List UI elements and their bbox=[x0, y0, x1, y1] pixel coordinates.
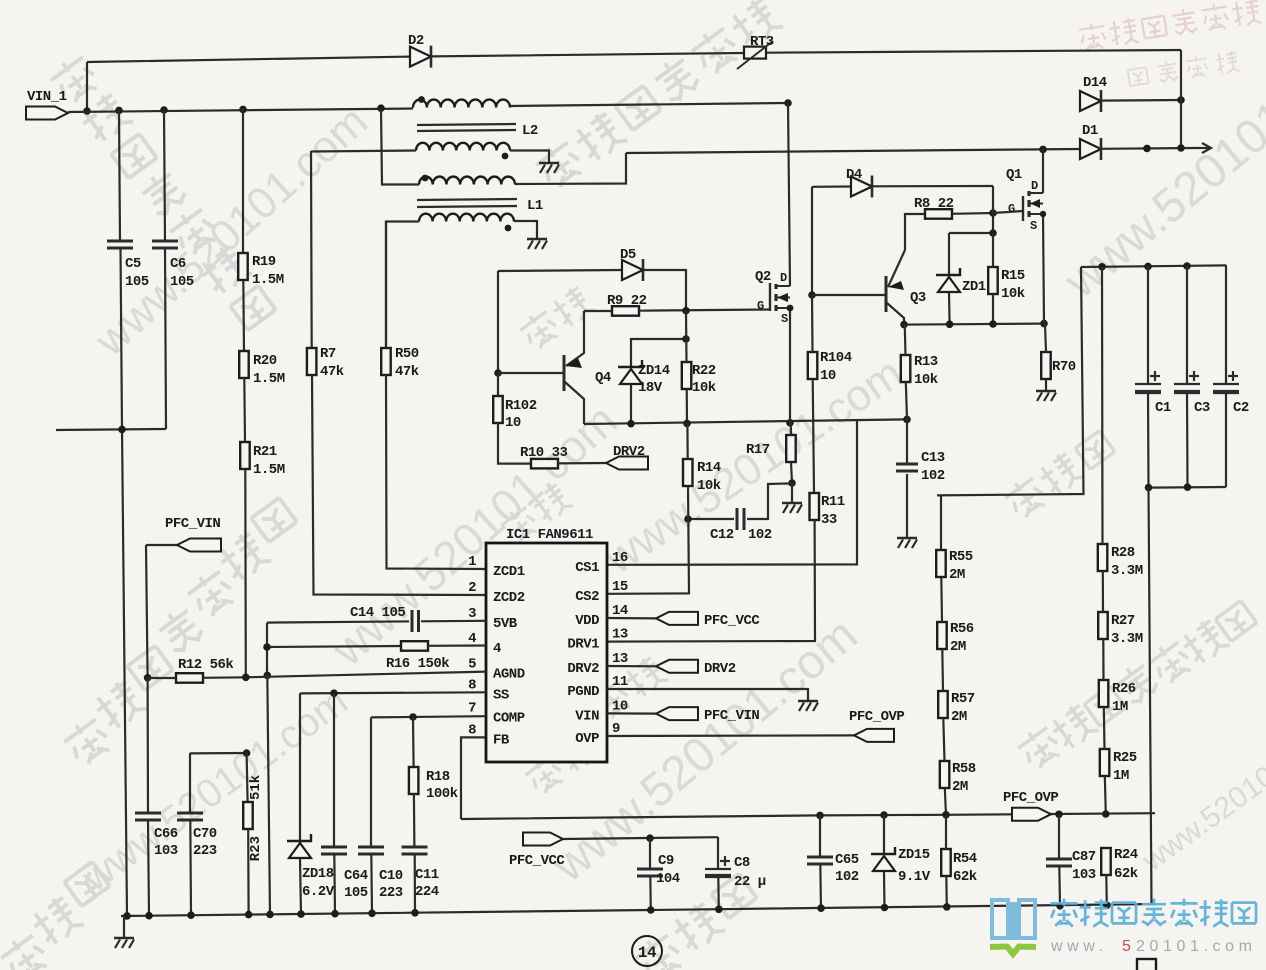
zener ZD15 bbox=[873, 856, 895, 871]
svg-text:R15: R15 bbox=[1001, 268, 1025, 284]
wire C6 column lower bbox=[165, 248, 166, 429]
ground C13 bbox=[897, 537, 917, 540]
junction gnd bus C66 bbox=[145, 912, 153, 920]
svg-text:R50: R50 bbox=[395, 346, 419, 362]
wire D4 line bbox=[812, 185, 851, 188]
wire AGND line bbox=[246, 672, 486, 678]
svg-text:20101.com: 20101.com bbox=[1136, 938, 1257, 955]
svg-text:C2: C2 bbox=[1233, 400, 1249, 416]
junction R12-R21 bbox=[242, 674, 250, 682]
wire R58 bottom bbox=[945, 788, 946, 815]
core L1 bbox=[417, 199, 517, 200]
junction gnd bus C11 bbox=[411, 909, 419, 917]
resistor R27 bbox=[1098, 612, 1108, 639]
resistor R104 bbox=[808, 352, 818, 379]
svg-text:22 μ: 22 μ bbox=[734, 874, 766, 890]
wire R70 stem bbox=[1045, 379, 1047, 390]
svg-text:ZCD2: ZCD2 bbox=[493, 590, 525, 606]
svg-text:102: 102 bbox=[921, 468, 945, 484]
wire SS line bbox=[300, 692, 486, 693]
capacitor C64 bbox=[321, 846, 347, 849]
wire COMP line bbox=[371, 716, 486, 717]
wire R11-DRV1 bbox=[607, 520, 815, 642]
svg-text:R19: R19 bbox=[252, 254, 276, 270]
diode D2 bbox=[410, 47, 431, 67]
wire R19-R20 bbox=[242, 280, 245, 351]
svg-text:1.5M: 1.5M bbox=[253, 462, 285, 478]
svg-text:105: 105 bbox=[170, 274, 194, 290]
svg-text:10: 10 bbox=[820, 368, 836, 384]
junction C1 bus feed bbox=[1143, 145, 1151, 153]
wire pin4 line left bbox=[267, 646, 401, 647]
diode D1 bbox=[1080, 139, 1101, 159]
capacitor C3 (electrolytic) bbox=[1174, 383, 1200, 385]
resistor R10 bbox=[531, 459, 558, 469]
ground L1 winding2 bbox=[527, 238, 547, 241]
svg-text:COMP: COMP bbox=[493, 711, 525, 727]
svg-text:L1: L1 bbox=[527, 198, 543, 214]
junction C9 top bbox=[646, 834, 654, 842]
wire right riser bbox=[1180, 50, 1182, 148]
resistor R22 bbox=[682, 362, 692, 389]
wire R19 column bbox=[242, 109, 244, 253]
junction Q2 source stub bbox=[787, 305, 794, 312]
resistor R56 bbox=[937, 622, 947, 649]
svg-text:10k: 10k bbox=[697, 478, 721, 494]
svg-text:D5: D5 bbox=[620, 247, 636, 263]
svg-text:R23: R23 bbox=[248, 836, 264, 861]
wire D4 riser bbox=[992, 186, 994, 213]
resistor R19 bbox=[238, 253, 248, 280]
svg-text:223: 223 bbox=[379, 885, 403, 901]
wire ZD18 column bbox=[299, 693, 301, 843]
wire C3 top bbox=[1186, 266, 1188, 384]
wire AGND ground column bbox=[267, 675, 270, 915]
svg-text:2M: 2M bbox=[952, 779, 968, 795]
wire CS1 riser bbox=[607, 420, 857, 565]
svg-text:C66: C66 bbox=[154, 826, 178, 842]
svg-text:2M: 2M bbox=[951, 709, 967, 725]
logo book icon bbox=[992, 900, 1035, 940]
wire ZD15 top bbox=[883, 815, 885, 854]
zener ZD18 bbox=[289, 843, 311, 858]
wire ZD14 bottom bbox=[630, 385, 632, 423]
wire C70 link bbox=[190, 752, 247, 755]
net flag DRV2 (gate drive) bbox=[606, 457, 648, 470]
capacitor C8 (electrolytic) bbox=[705, 868, 731, 870]
wire R54 top bbox=[945, 815, 947, 849]
junction gnd bus ZD18 bbox=[297, 910, 305, 918]
junction gnd bus C8 bbox=[715, 906, 723, 914]
wire R102-DRV2 bbox=[498, 423, 531, 464]
wire ZD14 top link bbox=[631, 339, 686, 367]
svg-text:62k: 62k bbox=[953, 869, 977, 885]
svg-text:9: 9 bbox=[612, 721, 620, 737]
wire L1 winding1 right bbox=[515, 153, 626, 184]
diode D4 bbox=[851, 177, 872, 197]
svg-text:105: 105 bbox=[344, 885, 368, 901]
svg-text:C5: C5 bbox=[125, 256, 141, 272]
junction pin4 tie bbox=[263, 643, 271, 651]
svg-text:C13: C13 bbox=[921, 450, 945, 466]
wire R24 bottom bbox=[1105, 875, 1108, 906]
svg-text:3.3M: 3.3M bbox=[1111, 563, 1143, 579]
wire R14-CS2 bbox=[607, 486, 689, 594]
svg-text:Q1: Q1 bbox=[1006, 167, 1022, 183]
wire R17 bottom bbox=[791, 462, 792, 483]
wire R20-R21 bbox=[243, 378, 246, 442]
ground R17/C12 bbox=[782, 502, 802, 505]
svg-text:8: 8 bbox=[468, 678, 476, 694]
wire C12 left bbox=[688, 518, 734, 520]
wire Q3 base line bbox=[812, 294, 886, 296]
svg-text:103: 103 bbox=[1072, 867, 1096, 883]
svg-text:1.5M: 1.5M bbox=[252, 272, 284, 288]
sheet number 14 bbox=[632, 936, 662, 966]
wire L1 winding2 left bbox=[386, 222, 419, 349]
svg-text:ZD14: ZD14 bbox=[638, 363, 670, 379]
wire C2 top bbox=[1225, 265, 1227, 384]
logo corner box bbox=[1137, 959, 1156, 970]
wire FB-OVP line bbox=[461, 813, 1155, 819]
ground R70 bbox=[1036, 390, 1056, 393]
svg-text:D: D bbox=[780, 271, 787, 285]
svg-text:R27: R27 bbox=[1111, 613, 1135, 629]
wire C10 bottom bbox=[370, 854, 373, 914]
svg-text:R54: R54 bbox=[953, 851, 977, 867]
junction Q1 drain feed bbox=[1039, 146, 1047, 154]
wire C5 column lower bbox=[121, 248, 128, 916]
junction Q3 base bbox=[808, 291, 816, 299]
wire Q1 gate bbox=[993, 211, 1023, 213]
wire L2 coil1 out bbox=[510, 103, 788, 106]
junction Q1 source stub bbox=[1040, 211, 1046, 217]
svg-text:R102: R102 bbox=[505, 398, 537, 414]
thermistor RT3 bbox=[744, 47, 766, 59]
net flag PFC_OVP (feedback) bbox=[1012, 808, 1051, 821]
svg-text:13: 13 bbox=[612, 651, 628, 667]
junction C1 bottom bbox=[1145, 484, 1153, 492]
wire main right column bbox=[1149, 488, 1152, 904]
junction Q3 emitter bbox=[900, 321, 908, 329]
svg-text:6.2V: 6.2V bbox=[302, 884, 335, 900]
resistor R20 bbox=[239, 351, 249, 378]
wire source bus bbox=[584, 419, 907, 424]
capacitor C6 bbox=[152, 240, 178, 243]
IC U1 FAN9611 body bbox=[486, 543, 607, 762]
capacitor C5 bbox=[107, 240, 133, 243]
transistor Q1 (MOSFET) bbox=[1022, 196, 1024, 221]
wire D4 line left riser bbox=[811, 187, 813, 295]
svg-text:10: 10 bbox=[505, 415, 521, 431]
svg-text:C12: C12 bbox=[710, 527, 734, 543]
svg-text:CS2: CS2 bbox=[575, 589, 599, 605]
junction C1 top bbox=[1144, 263, 1152, 271]
svg-text:FB: FB bbox=[493, 732, 510, 748]
wire R17 top bbox=[790, 421, 792, 435]
junction D14 out bbox=[1177, 96, 1185, 104]
resistor R26 bbox=[1099, 680, 1109, 707]
junction Q4 base bbox=[494, 369, 502, 377]
wire cap bus bbox=[1081, 265, 1226, 267]
svg-text:5: 5 bbox=[468, 657, 476, 673]
svg-text:R20: R20 bbox=[253, 353, 277, 369]
resistor R16 bbox=[401, 641, 428, 651]
svg-text:C8: C8 bbox=[734, 855, 750, 871]
wire C13 top bbox=[906, 419, 908, 464]
svg-text:10k: 10k bbox=[914, 372, 938, 388]
wire D1 line bbox=[626, 149, 1080, 153]
wire ZD1 bottom bbox=[948, 293, 951, 324]
wire R56-R57 bbox=[941, 649, 944, 691]
svg-text:103: 103 bbox=[154, 843, 178, 859]
wire left riser bbox=[86, 62, 88, 111]
svg-text:D2: D2 bbox=[408, 33, 424, 49]
wire R104 top bbox=[811, 295, 814, 352]
wire ZD15 bottom bbox=[883, 872, 886, 909]
net flag PFC_VCC (pin14) bbox=[607, 617, 656, 620]
wire R14 top bbox=[686, 423, 688, 459]
junction C5-C6 tie bbox=[118, 426, 126, 434]
svg-text:D1: D1 bbox=[1082, 123, 1098, 139]
svg-text:SS: SS bbox=[493, 688, 509, 704]
wire R18-C11 bbox=[413, 794, 416, 847]
wire R17 gnd stem bbox=[791, 483, 793, 502]
net flag VIN_1 bbox=[26, 107, 68, 120]
wire L2 winding2 right bbox=[510, 151, 549, 163]
svg-text:C87: C87 bbox=[1072, 849, 1096, 865]
wire C8 top bbox=[717, 837, 719, 869]
svg-text:4: 4 bbox=[493, 641, 501, 657]
wire C8 bottom bbox=[717, 876, 720, 910]
svg-text:C65: C65 bbox=[835, 852, 859, 868]
svg-text:14: 14 bbox=[612, 603, 628, 619]
svg-text:2M: 2M bbox=[950, 639, 966, 655]
net flag PFC_VCC (supply) bbox=[523, 833, 563, 846]
svg-text:R28: R28 bbox=[1111, 545, 1135, 561]
wire R12 right lead bbox=[203, 676, 246, 679]
junction R58-R54 bbox=[942, 811, 950, 819]
ground main bbox=[114, 937, 134, 940]
svg-text:R58: R58 bbox=[952, 761, 976, 777]
wire C1 bottom bbox=[1147, 392, 1150, 487]
resistor R15 bbox=[988, 267, 998, 294]
resistor R54 bbox=[941, 849, 951, 876]
wire R10 out bbox=[558, 462, 606, 465]
svg-text:C6: C6 bbox=[170, 256, 186, 272]
junction gnd bus C5 bbox=[123, 912, 131, 920]
diode D5 bbox=[622, 260, 643, 280]
wire 5VB drop bbox=[266, 623, 268, 676]
resistor R24 bbox=[1101, 848, 1111, 875]
net flag PFC_VIN (pin10) bbox=[607, 712, 656, 714]
wire cap lower bus bbox=[1149, 486, 1227, 489]
capacitor C13 bbox=[896, 463, 918, 466]
wire R7 column lower (ZCD2) bbox=[312, 375, 486, 595]
svg-text:9.1V: 9.1V bbox=[898, 869, 931, 885]
svg-text:S: S bbox=[1030, 219, 1037, 233]
wire top bus right bbox=[766, 50, 1181, 53]
wire C5 column upper bbox=[119, 110, 120, 241]
wire R9 line left bbox=[584, 310, 612, 312]
wire D14 out bbox=[1101, 99, 1181, 102]
junction gnd bus C70 bbox=[187, 911, 195, 919]
wire C87 top bbox=[1058, 814, 1060, 859]
svg-text:1M: 1M bbox=[1113, 768, 1129, 784]
svg-text:R24: R24 bbox=[1114, 847, 1138, 863]
junction gnd bus AGND bbox=[266, 911, 274, 919]
svg-text:R104: R104 bbox=[820, 350, 852, 366]
junction ZD14 bottom bbox=[627, 420, 635, 428]
node L1 winding1 phase dot bbox=[422, 175, 429, 182]
svg-text:Q2: Q2 bbox=[755, 269, 771, 285]
wire R70 top bbox=[1045, 324, 1046, 352]
wire R8 left bbox=[905, 214, 925, 250]
svg-text:R25: R25 bbox=[1113, 750, 1137, 766]
svg-text:C70: C70 bbox=[193, 826, 217, 842]
junction gnd bus C64 bbox=[331, 910, 339, 918]
capacitor C10 bbox=[358, 846, 384, 849]
svg-text:C11: C11 bbox=[415, 867, 439, 883]
junction R12 left bbox=[144, 674, 152, 682]
wire R22 top bbox=[685, 311, 688, 362]
wire C66 bottom bbox=[148, 820, 149, 916]
wire C2 bottom bbox=[1225, 392, 1227, 487]
wire R104-R11 bbox=[813, 379, 814, 493]
wire R8-gate bbox=[952, 212, 993, 215]
wire VCC link bbox=[563, 837, 718, 839]
svg-text:G: G bbox=[757, 299, 764, 313]
svg-text:R9 22: R9 22 bbox=[607, 293, 647, 309]
svg-text:102: 102 bbox=[835, 869, 859, 885]
wire R50 column lower (ZCD1) bbox=[386, 375, 486, 569]
svg-text:PFC_VCC: PFC_VCC bbox=[509, 853, 565, 869]
wire R13 top bbox=[904, 324, 907, 355]
net flag DRV2 (pin13) bbox=[607, 665, 656, 667]
junction R17 gnd bbox=[788, 479, 796, 487]
junction R28 top bbox=[1098, 263, 1106, 271]
svg-text:2: 2 bbox=[468, 580, 476, 596]
svg-text:7: 7 bbox=[468, 701, 476, 717]
junction Q1 gate bbox=[989, 209, 997, 217]
wire R13 bottom bbox=[906, 382, 907, 419]
wire Q1 drain riser bbox=[1042, 149, 1044, 193]
resistor R102 bbox=[493, 396, 503, 423]
capacitor C1 (electrolytic) bbox=[1135, 383, 1161, 385]
junction C70-R23 bbox=[243, 749, 251, 757]
svg-text:ZD15: ZD15 bbox=[898, 847, 930, 863]
inductor L1 winding2 bbox=[419, 214, 514, 222]
svg-text:CS1: CS1 bbox=[575, 560, 599, 576]
wire ZD1 top bbox=[948, 233, 950, 275]
svg-text:D: D bbox=[1031, 179, 1038, 193]
junction AGND tie bbox=[264, 672, 272, 680]
wire C64 bottom bbox=[333, 854, 336, 914]
svg-text:R12 56k: R12 56k bbox=[178, 657, 233, 673]
wire L1 feed riser bbox=[381, 108, 419, 184]
svg-text:R21: R21 bbox=[253, 444, 277, 460]
svg-text:OVP: OVP bbox=[575, 731, 599, 747]
svg-text:100k: 100k bbox=[426, 786, 458, 802]
svg-text:105: 105 bbox=[125, 274, 149, 290]
svg-text:www.520101.com: www.520101.com bbox=[85, 97, 377, 366]
wire R18 top bbox=[412, 717, 415, 767]
wire bottom gnd stem bbox=[123, 916, 125, 937]
junction ZD14-R22 bbox=[682, 335, 690, 343]
junction gnd bus C9 bbox=[647, 906, 655, 914]
svg-text:VDD: VDD bbox=[575, 613, 599, 629]
wire R26-R25 bbox=[1103, 707, 1106, 749]
wire R57-R58 bbox=[943, 718, 944, 761]
svg-text:R56: R56 bbox=[950, 621, 974, 637]
wire C12 right bbox=[747, 483, 792, 519]
resistor R55 bbox=[936, 550, 946, 577]
svg-text:G: G bbox=[1008, 202, 1015, 216]
svg-text:S: S bbox=[781, 312, 788, 326]
junction C6 top bbox=[160, 106, 168, 114]
svg-text:R55: R55 bbox=[949, 549, 973, 565]
svg-text:62k: 62k bbox=[1114, 866, 1138, 882]
svg-text:R18: R18 bbox=[426, 769, 450, 785]
capacitor C9 bbox=[637, 868, 663, 871]
wire main bus bbox=[68, 109, 413, 113]
wire D4 out bbox=[872, 185, 993, 188]
wire C1 top bbox=[1147, 266, 1149, 384]
junction C3 top bbox=[1183, 262, 1191, 270]
wire R102 column bbox=[497, 373, 499, 396]
svg-text:1: 1 bbox=[468, 554, 476, 570]
logo title text bbox=[1050, 899, 1256, 927]
resistor R18 bbox=[409, 767, 419, 794]
svg-text:IC1 FAN9611: IC1 FAN9611 bbox=[506, 527, 593, 543]
resistor R28 bbox=[1098, 544, 1108, 571]
wire L2 winding2 left bbox=[311, 151, 416, 152]
wire C3 bottom bbox=[1186, 392, 1189, 487]
svg-text:Q4: Q4 bbox=[595, 370, 611, 386]
wire R7 column upper bbox=[310, 151, 313, 348]
node VIN_1 junction bbox=[83, 107, 91, 115]
wire stub 429 bbox=[56, 429, 166, 430]
svg-text:R57: R57 bbox=[951, 691, 975, 707]
svg-text:www.: www. bbox=[1050, 938, 1108, 955]
svg-text:VIN_1: VIN_1 bbox=[27, 89, 67, 105]
junction Q1 source bottom bbox=[1040, 320, 1048, 328]
ground L2 winding2 bbox=[539, 162, 559, 165]
junction C3 bottom bbox=[1184, 483, 1192, 491]
svg-text:R22: R22 bbox=[692, 363, 716, 379]
wire R22 bottom bbox=[686, 389, 688, 423]
junction R9-R22 bbox=[682, 307, 690, 315]
junction Q2 source bbox=[786, 419, 794, 427]
wire output arrow bbox=[1196, 147, 1210, 149]
capacitor C65 bbox=[807, 856, 833, 859]
wire C13 stem bbox=[906, 474, 908, 537]
inductor L2 winding1 bbox=[413, 100, 510, 108]
svg-text:Q3: Q3 bbox=[910, 290, 926, 306]
wire R27-R26 bbox=[1102, 639, 1104, 680]
junction R19 top bbox=[239, 106, 247, 114]
wire L1 winding2 right bbox=[514, 221, 537, 238]
svg-text:PGND: PGND bbox=[567, 684, 599, 700]
svg-text:16: 16 bbox=[612, 550, 628, 566]
svg-text:D4: D4 bbox=[846, 167, 862, 183]
wire D5 out bbox=[643, 270, 686, 311]
wire C64 column bbox=[333, 693, 335, 847]
ground PGND bbox=[798, 700, 818, 703]
svg-text:5: 5 bbox=[1122, 938, 1136, 955]
resistor R13 bbox=[901, 355, 911, 382]
wire C70 bottom bbox=[189, 820, 192, 915]
